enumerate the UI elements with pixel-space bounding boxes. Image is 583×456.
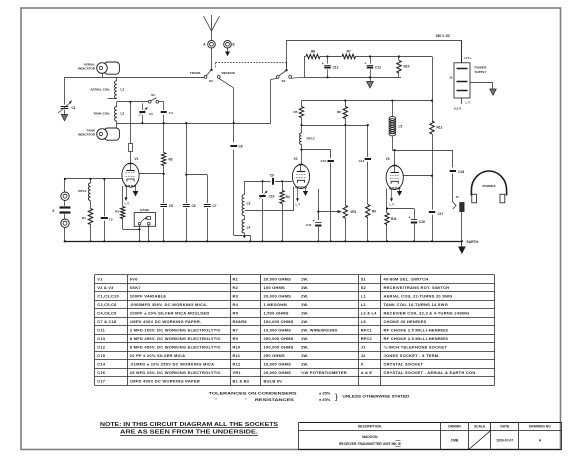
svg-text:RF CHOKE 2.5 MILLI-HENRIES: RF CHOKE 2.5 MILLI-HENRIES (384, 336, 449, 341)
svg-text:¼-INCH TELEPHONE SOCKET: ¼-INCH TELEPHONE SOCKET (384, 345, 448, 350)
svg-text:VR1: VR1 (233, 370, 242, 375)
svg-text:TOLERANCES ON CONDENSERS: TOLERANCES ON CONDENSERS (209, 391, 297, 396)
svg-text:DRAWN: DRAWN (448, 425, 461, 429)
svg-text:1,500 OHMS: 1,500 OHMS (264, 311, 289, 316)
svg-text:H.T.+: H.T.+ (465, 56, 472, 60)
svg-text:L5: L5 (399, 125, 403, 129)
svg-text:S2: S2 (282, 79, 286, 83)
svg-text:250 OHMS: 250 OHMS (264, 353, 286, 358)
svg-text:C14: C14 (359, 159, 365, 163)
svg-text:± 25%: ± 25% (319, 391, 331, 396)
svg-text:UNLESS OTHERWISE STATED: UNLESS OTHERWISE STATED (342, 394, 409, 399)
svg-text:RECEIVE: RECEIVE (222, 71, 236, 75)
svg-text:A & E: A & E (361, 370, 373, 375)
svg-text:C7 & C18: C7 & C18 (97, 319, 117, 324)
svg-text:R9: R9 (233, 336, 239, 341)
svg-text:L4: L4 (247, 226, 251, 230)
svg-text:C12: C12 (333, 65, 339, 69)
svg-text:L.T.: L.T. (125, 202, 130, 206)
svg-text:+: + (313, 219, 315, 223)
svg-text:C10: C10 (269, 194, 275, 198)
svg-text:C17: C17 (97, 379, 106, 384)
svg-text:2W. WIREWOUND: 2W. WIREWOUND (301, 328, 338, 333)
svg-text:C14: C14 (97, 362, 106, 367)
svg-text:1W.: 1W. (301, 319, 309, 324)
svg-text:CRYSTAL SOCKET: CRYSTAL SOCKET (384, 362, 424, 367)
svg-text:C4,C8,C9: C4,C8,C9 (97, 311, 117, 316)
svg-text:1W.: 1W. (301, 353, 309, 358)
svg-text:R8: R8 (337, 110, 341, 114)
svg-text:L.T.: L.T. (390, 203, 395, 207)
svg-text:E: E (233, 43, 235, 47)
svg-text:1MFD 400V DC WORKING PAPER.: 1MFD 400V DC WORKING PAPER. (130, 319, 202, 324)
svg-text:40-80M SEL. SWITCH: 40-80M SEL. SWITCH (384, 277, 429, 282)
svg-text:GANG: GANG (140, 208, 150, 212)
svg-text:+: + (364, 61, 366, 65)
svg-text:CRYSTAL SOCKET - AERIAL & EART: CRYSTAL SOCKET - AERIAL & EARTH CON. (384, 370, 477, 375)
svg-text:25,000 OHMS: 25,000 OHMS (264, 370, 292, 375)
svg-text:1W.: 1W. (301, 277, 309, 282)
svg-text:C1,C3,C10: C1,C3,C10 (97, 294, 119, 299)
svg-text:2W.: 2W. (301, 294, 309, 299)
svg-text:L1: L1 (361, 294, 367, 299)
svg-text:20,000 OHMS: 20,000 OHMS (264, 294, 292, 299)
svg-text:R3: R3 (233, 294, 239, 299)
svg-text:INDICATOR: INDICATOR (78, 133, 96, 137)
svg-text:100 OHMS: 100 OHMS (264, 285, 286, 290)
svg-text:C9: C9 (270, 174, 274, 178)
svg-text:R1: R1 (82, 216, 86, 220)
svg-text:L1: L1 (121, 88, 125, 92)
svg-text:R11: R11 (233, 353, 241, 358)
svg-text:DESCRIPTION.: DESCRIPTION. (358, 425, 382, 429)
svg-text:J2: J2 (361, 353, 366, 358)
svg-text:RECEIVE/TRANS ROT. SWITCH: RECEIVE/TRANS ROT. SWITCH (384, 285, 450, 290)
svg-text:R9: R9 (372, 210, 376, 214)
svg-text:.0005MFD 350V. DC WORKING MICA: .0005MFD 350V. DC WORKING MICA. (130, 302, 208, 307)
svg-text:C2,C5,C6: C2,C5,C6 (97, 302, 117, 307)
svg-text:POWER: POWER (475, 66, 487, 70)
svg-text:V3: V3 (386, 157, 390, 161)
svg-text:R6: R6 (311, 50, 315, 54)
svg-text:C11: C11 (97, 328, 105, 333)
svg-text:15,000 OHMS: 15,000 OHMS (264, 362, 292, 367)
svg-text:L2: L2 (121, 112, 125, 116)
svg-text:R5: R5 (233, 311, 239, 316)
svg-text:6V6: 6V6 (130, 277, 138, 282)
svg-text:MADOON: MADOON (362, 435, 378, 439)
svg-text:C13: C13 (375, 65, 381, 69)
svg-text:V2: V2 (294, 157, 298, 161)
svg-text:+: + (322, 61, 324, 65)
svg-text:2 MFD 100V. DC WORKING ELECTRO: 2 MFD 100V. DC WORKING ELECTROLYTIC (130, 328, 221, 333)
svg-text:L.T.: L.T. (296, 203, 301, 207)
svg-text:RFC1: RFC1 (78, 189, 86, 193)
svg-text:L2: L2 (361, 302, 367, 307)
svg-text:TANK COIL: TANK COIL (93, 112, 110, 116)
svg-text:AERIAL COIL 22-TURNS 20 SWG: AERIAL COIL 22-TURNS 20 SWG (384, 294, 453, 299)
svg-text:1W.: 1W. (301, 302, 309, 307)
svg-text:R7: R7 (347, 50, 351, 54)
svg-text:1W.: 1W. (301, 311, 309, 316)
svg-text:C7: C7 (212, 204, 216, 208)
svg-text:25 MFD 25V. DC WORKING ELECTRO: 25 MFD 25V. DC WORKING ELECTROLYTIC (130, 370, 221, 375)
svg-text:V2 & V3: V2 & V3 (97, 285, 114, 290)
svg-text:10,000 OHMS: 10,000 OHMS (264, 328, 292, 333)
svg-text:280 V. DC: 280 V. DC (436, 34, 451, 38)
svg-text:8 MFD 450V. DC WORKING ELECTRO: 8 MFD 450V. DC WORKING ELECTROLYTIC (130, 345, 221, 350)
svg-text:100,000 OHMS: 100,000 OHMS (264, 345, 294, 350)
svg-text:CHOKE 30 HENRIES: CHOKE 30 HENRIES (384, 319, 427, 324)
svg-text:L3 & L4: L3 & L4 (361, 311, 377, 316)
svg-text:C15: C15 (321, 159, 327, 163)
svg-text:100,000 OHMS: 100,000 OHMS (264, 319, 294, 324)
svg-text:RECEIVER-TRANSMITTER UNIT M: RECEIVER-TRANSMITTER UNIT MK III (339, 442, 401, 446)
svg-text:R10: R10 (233, 345, 242, 350)
svg-text:INDICATOR: INDICATOR (78, 67, 96, 71)
svg-text:C16: C16 (419, 220, 425, 224)
svg-text:½W POTENTIOMETER: ½W POTENTIOMETER (301, 370, 347, 375)
svg-text:R4: R4 (286, 195, 290, 199)
svg-text:8 MFD 450V. DC WORKING ELECTRO: 8 MFD 450V. DC WORKING ELECTROLYTIC (130, 336, 221, 341)
svg-text:C13: C13 (97, 336, 106, 341)
svg-text:L3: L3 (247, 202, 251, 206)
svg-text:C4: C4 (169, 111, 173, 115)
svg-text:VR1: VR1 (350, 210, 356, 214)
svg-text:C15: C15 (97, 353, 106, 358)
svg-text:S2: S2 (361, 285, 367, 290)
svg-text:R3: R3 (169, 158, 173, 162)
svg-text:C5: C5 (169, 204, 173, 208)
svg-text:R5: R5 (294, 110, 298, 114)
svg-text:C8: C8 (239, 145, 243, 149)
svg-text:S1: S1 (361, 277, 367, 282)
svg-text:PHONES: PHONES (482, 184, 495, 188)
svg-text:R12: R12 (233, 362, 242, 367)
svg-text:C3: C3 (149, 112, 153, 116)
svg-text:RFC2: RFC2 (307, 137, 315, 141)
svg-text:J2: J2 (449, 76, 453, 80)
svg-text:AERIAL COIL: AERIAL COIL (90, 88, 110, 92)
svg-text:ARE AS SEEN FROM THE UNDERSI: ARE AS SEEN FROM THE UNDERSIDE. (120, 430, 259, 436)
svg-text:100PF ± 20% SILVER MICA MOULDE: 100PF ± 20% SILVER MICA MOULDED (130, 311, 210, 316)
svg-text:100PF VARIABLE: 100PF VARIABLE (130, 294, 167, 299)
svg-text:R12: R12 (437, 126, 443, 130)
svg-text:C6: C6 (192, 204, 196, 208)
svg-text:6SK7: 6SK7 (130, 285, 142, 290)
svg-text:BULB 6V.: BULB 6V. (264, 379, 283, 384)
svg-text:L5: L5 (361, 319, 367, 324)
svg-text:V1: V1 (135, 157, 139, 161)
svg-text:J1: J1 (361, 345, 366, 350)
svg-text:6.3 V.: 6.3 V. (454, 107, 462, 111)
svg-text:R1: R1 (233, 277, 239, 282)
svg-text:1W.: 1W. (301, 362, 309, 367)
svg-text:1W.: 1W. (301, 336, 309, 341)
svg-text:'': '' (215, 397, 217, 402)
svg-text:C18: C18 (458, 170, 464, 174)
svg-text:R2: R2 (233, 285, 239, 290)
svg-text:}: } (335, 392, 338, 402)
svg-text:.01MFD ± 10% 250V DC WORKING: .01MFD ± 10% 250V DC WORKING MICA (130, 362, 214, 367)
svg-text:'': '' (245, 397, 247, 402)
svg-text:C1: C1 (72, 106, 76, 110)
svg-text:TANK COIL 16-TURNS 14 SWG: TANK COIL 16-TURNS 14 SWG (384, 302, 449, 307)
svg-text:C2: C2 (109, 217, 113, 221)
svg-text:C11: C11 (306, 223, 312, 227)
svg-text:R6&R8: R6&R8 (233, 319, 248, 324)
svg-text:SCALE: SCALE (474, 425, 486, 429)
svg-text:CMB: CMB (451, 439, 459, 443)
svg-text:1MFD 400V DC WORKING PAPER: 1MFD 400V DC WORKING PAPER (130, 379, 200, 384)
svg-text:R2: R2 (115, 210, 119, 214)
svg-text:+: + (408, 216, 410, 220)
svg-text:X: X (361, 362, 364, 367)
svg-text:V1: V1 (97, 277, 103, 282)
svg-text:EARTH.: EARTH. (467, 240, 479, 244)
svg-text:250,000 OHMS: 250,000 OHMS (264, 336, 294, 341)
svg-text:C17: C17 (438, 212, 444, 216)
svg-text:R11: R11 (391, 217, 397, 221)
svg-text:10 PF ± 20% SILVER MICA: 10 PF ± 20% SILVER MICA (130, 353, 185, 358)
svg-text:1 MEGOHM: 1 MEGOHM (264, 302, 288, 307)
svg-text:TRANS: TRANS (190, 71, 201, 75)
svg-text:20,000 OHMS: 20,000 OHMS (264, 277, 292, 282)
svg-text:SUPPLY: SUPPLY (475, 70, 488, 74)
svg-text:L.T.: L.T. (466, 101, 471, 105)
svg-text:B1 & B2: B1 & B2 (233, 379, 250, 384)
svg-text:RESISTANCES: RESISTANCES (255, 397, 294, 402)
svg-text:RF CHOKE 2.5 MILLI-HENRIES: RF CHOKE 2.5 MILLI-HENRIES (384, 328, 449, 333)
svg-text:RFC2: RFC2 (361, 336, 373, 341)
svg-text:J1: J1 (456, 195, 460, 199)
svg-text:R4: R4 (233, 302, 239, 307)
svg-text:JONES SOCKET - 8 TERM.: JONES SOCKET - 8 TERM. (384, 353, 440, 358)
svg-text:2W.: 2W. (301, 345, 309, 350)
svg-text:RFC1: RFC1 (361, 328, 373, 333)
svg-text:R10: R10 (404, 65, 410, 69)
svg-text:C16: C16 (97, 370, 106, 375)
svg-text:S2: S2 (209, 79, 213, 83)
svg-text:2009-07-07: 2009-07-07 (496, 439, 513, 443)
svg-text:S1: S1 (151, 93, 155, 97)
svg-text:RECEIVER COIL 32,3 & 4-TURNS: RECEIVER COIL 32,3 & 4-TURNS 24SWG (384, 311, 470, 316)
svg-text:± 20%: ± 20% (319, 397, 331, 402)
svg-text:1W.: 1W. (301, 285, 309, 290)
svg-text:DRAWING NO: DRAWING NO (529, 425, 551, 429)
svg-text:DATE: DATE (500, 425, 510, 429)
svg-text:C12: C12 (97, 345, 106, 350)
svg-text:R7: R7 (233, 328, 239, 333)
